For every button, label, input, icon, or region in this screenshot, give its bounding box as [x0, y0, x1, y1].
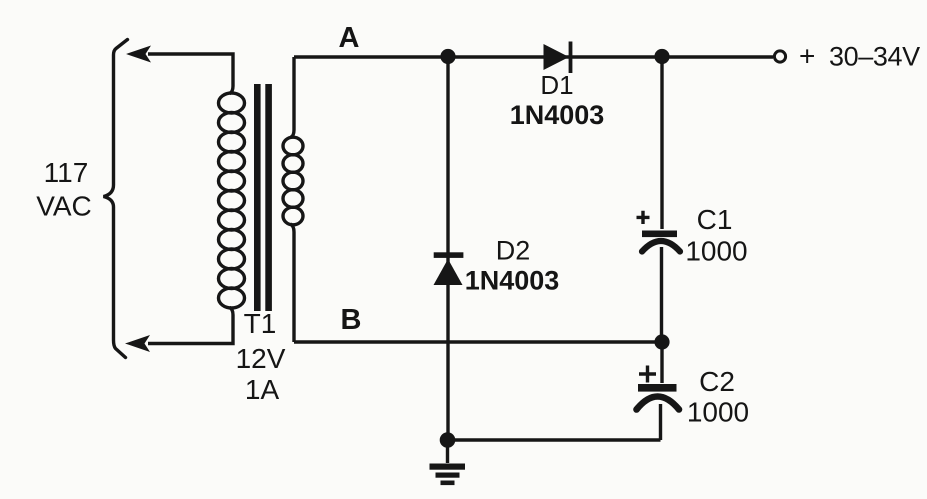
svg-text:1A: 1A	[245, 374, 280, 405]
svg-text:T1: T1	[244, 308, 277, 339]
output terminal	[774, 51, 785, 62]
wire node A down through D2 to ground junction	[446, 57, 449, 440]
wire C2 bottom lead	[659, 404, 662, 440]
svg-text:1N4003: 1N4003	[510, 100, 605, 130]
wire C1 branch lower	[660, 247, 663, 342]
svg-text:VAC: VAC	[36, 191, 92, 222]
wire secondary bottom lead	[291, 224, 295, 342]
svg-text:30–34V: 30–34V	[829, 42, 920, 72]
svg-text:117: 117	[44, 157, 89, 188]
label T1 12V 1A	[236, 308, 286, 405]
junction B rail / C1 / C2	[654, 334, 669, 349]
junction top of C1	[654, 49, 669, 64]
wire bottom return to ground	[448, 438, 661, 441]
wire top rail node A	[294, 55, 773, 58]
arrowhead top (primary)	[126, 46, 151, 63]
svg-text:1000: 1000	[685, 236, 747, 267]
capacitor C1	[637, 211, 650, 224]
wire C1 branch upper	[660, 57, 663, 229]
diode D2	[434, 252, 464, 258]
svg-text:A: A	[339, 22, 360, 54]
svg-text:1N4003: 1N4003	[465, 266, 560, 296]
ground	[446, 440, 449, 463]
wire primary top lead	[148, 54, 233, 94]
svg-text:C2: C2	[699, 366, 735, 397]
svg-text:D1: D1	[540, 70, 573, 100]
junction ground	[440, 432, 456, 448]
label 117 VAC	[36, 157, 92, 222]
arrowhead bottom (primary)	[125, 335, 150, 352]
wire primary bottom lead	[148, 308, 233, 344]
brace for 117 VAC	[104, 40, 128, 358]
svg-text:B: B	[341, 304, 362, 336]
junction node A	[440, 49, 455, 64]
wire secondary top lead	[291, 57, 295, 138]
transformer T1 core	[254, 84, 261, 311]
svg-text:1000: 1000	[687, 397, 749, 428]
svg-text:+: +	[799, 41, 815, 72]
svg-text:C1: C1	[697, 204, 733, 235]
transformer T1 primary winding	[219, 93, 245, 308]
capacitor C2	[639, 366, 656, 383]
svg-text:D2: D2	[496, 236, 531, 266]
svg-text:12V: 12V	[236, 343, 286, 374]
wire B rail	[294, 340, 662, 343]
transformer T1 secondary winding	[283, 137, 303, 225]
diode D1	[544, 44, 570, 70]
wire C2 top lead	[660, 342, 663, 383]
